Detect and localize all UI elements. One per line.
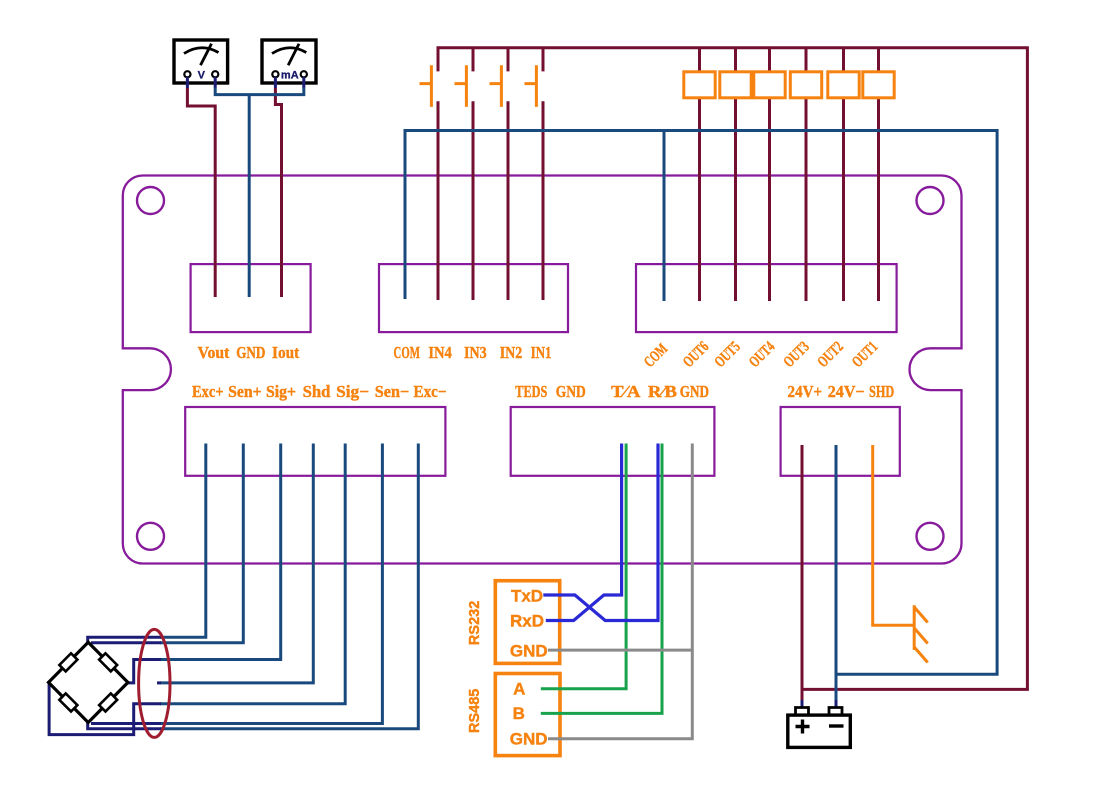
load K4	[754, 72, 785, 98]
terminal block Vout/GND/Iout	[191, 264, 311, 332]
load cell bridge	[49, 642, 128, 722]
svg-text:GND: GND	[510, 730, 548, 749]
hole bottom-left	[137, 523, 164, 550]
svg-text:RS232: RS232	[467, 601, 483, 645]
svg-text:Sig+: Sig+	[266, 382, 296, 401]
battery	[788, 700, 851, 747]
wire GND steel from meters	[215, 87, 304, 297]
svg-text:24V−: 24V−	[828, 382, 865, 401]
svg-text:RxD: RxD	[510, 611, 544, 630]
svg-text:V: V	[198, 69, 206, 81]
wire IN1 maroon	[542, 48, 545, 300]
svg-text:R⁄B: R⁄B	[648, 382, 677, 401]
terminal block COM/IN4..IN1	[379, 264, 568, 332]
hole bottom-right	[917, 523, 944, 550]
wire Sen- navy	[91, 722, 161, 725]
svg-text:T⁄A: T⁄A	[611, 382, 640, 401]
svg-text:OUT3: OUT3	[780, 338, 813, 371]
wire GND gray RS485 main	[548, 444, 692, 739]
wire Exc- navy to bridge bottom	[88, 722, 161, 729]
load K6	[684, 72, 715, 98]
terminal block TEDS/TA/RB/GND	[511, 407, 715, 476]
svg-text:mA: mA	[281, 69, 299, 81]
terminal block Exc/Sen/Sig	[185, 407, 445, 476]
switch S3 orange	[455, 65, 467, 107]
wire 24Vminus navy-steel to battery	[835, 445, 838, 707]
hole top-right	[917, 187, 944, 214]
svg-text:A: A	[513, 680, 525, 699]
load K5	[720, 72, 751, 98]
svg-text:GND: GND	[680, 382, 709, 401]
wire OUT4 maroon	[768, 48, 771, 301]
wire Exc- steel	[160, 444, 418, 729]
switch S1 orange	[525, 65, 537, 107]
wire OUT3 maroon	[805, 48, 808, 301]
RS485 box	[495, 674, 560, 756]
svg-text:OUT4: OUT4	[746, 338, 779, 371]
wire Vout maroon from V meter	[187, 88, 215, 297]
wire Shd steel	[160, 444, 313, 683]
svg-text:TEDS: TEDS	[515, 382, 547, 401]
wire RxD blue crossover	[546, 444, 622, 621]
svg-text:GND: GND	[556, 382, 586, 401]
svg-text:Sig−: Sig−	[336, 382, 369, 401]
meter V box	[174, 40, 228, 83]
wire Sig- steel	[160, 444, 345, 704]
wire SHD orange	[873, 445, 915, 625]
svg-text:OUT5: OUT5	[711, 338, 744, 371]
svg-text:IN2: IN2	[500, 343, 523, 362]
wire Sig+ navy to bridge right	[126, 660, 161, 683]
wire Shd navy stub	[157, 681, 161, 684]
wire RS485 B green	[541, 444, 662, 714]
terminal block 24V	[781, 407, 900, 476]
wire +24V top bus maroon	[438, 48, 1027, 690]
load K3	[790, 72, 821, 98]
svg-text:Exc−: Exc−	[414, 382, 447, 401]
wire 24V+ vertical maroon to battery	[801, 445, 804, 707]
svg-text:Vout: Vout	[198, 343, 230, 362]
wire Sen+ navy	[91, 641, 161, 644]
svg-text:Iout: Iout	[272, 343, 300, 362]
ground chassis symbol	[914, 605, 928, 662]
wire TxD blue crossover	[543, 444, 658, 621]
wire RS485 A green	[541, 444, 626, 689]
terminal block COM/OUT6..OUT1	[636, 264, 897, 332]
svg-text:SHD: SHD	[869, 382, 894, 401]
board outline	[123, 176, 962, 564]
wire Sen+ steel	[160, 444, 243, 643]
wire OUT5 maroon	[734, 48, 737, 301]
svg-text:IN1: IN1	[531, 343, 552, 362]
wire IN4 maroon	[437, 101, 440, 300]
wire Sen- steel	[160, 444, 382, 724]
wire GND gray RS232	[548, 649, 692, 652]
svg-text:Sen+: Sen+	[228, 382, 262, 401]
wire Exc+ navy to bridge top	[88, 637, 161, 643]
svg-text:IN3: IN3	[464, 343, 487, 362]
meter mA box	[262, 40, 316, 83]
svg-text:Shd: Shd	[303, 382, 331, 401]
wire OUT6 maroon	[698, 48, 701, 301]
svg-text:COM: COM	[641, 340, 672, 371]
svg-text:24V+: 24V+	[788, 382, 823, 401]
svg-text:Exc+: Exc+	[192, 382, 224, 401]
cable shield ellipse	[139, 629, 170, 737]
svg-text:COM: COM	[394, 343, 421, 362]
RS232 box	[495, 581, 559, 664]
svg-text:OUT2: OUT2	[814, 338, 847, 371]
switch S4 orange	[420, 65, 432, 107]
svg-text:Sen−: Sen−	[375, 382, 409, 401]
wire COM bus steel	[405, 131, 997, 675]
hole top-left	[137, 187, 164, 214]
switch S2 orange	[490, 65, 502, 107]
meter mA lead stubs navy	[275, 77, 303, 88]
wire Sig+ steel	[160, 444, 281, 660]
wire IN2 maroon	[507, 48, 510, 300]
svg-text:RS485: RS485	[467, 689, 483, 733]
svg-text:OUT1: OUT1	[849, 338, 882, 371]
wire Exc+ steel	[160, 444, 206, 638]
wire Iout maroon from mA meter	[275, 88, 281, 297]
load K2	[828, 72, 859, 98]
svg-text:IN4: IN4	[428, 343, 452, 362]
svg-text:GND: GND	[510, 641, 548, 660]
load K1	[863, 72, 894, 98]
svg-text:TxD: TxD	[511, 586, 543, 605]
svg-text:B: B	[513, 704, 525, 723]
wire IN3 maroon	[472, 48, 475, 300]
meter V lead stubs navy	[187, 77, 215, 88]
svg-text:OUT6: OUT6	[680, 338, 713, 371]
svg-text:GND: GND	[236, 343, 265, 362]
wire OUT1 maroon	[877, 48, 880, 301]
wire Sig- navy loop to bridge left	[49, 683, 161, 735]
wire OUT2 maroon	[842, 48, 845, 301]
